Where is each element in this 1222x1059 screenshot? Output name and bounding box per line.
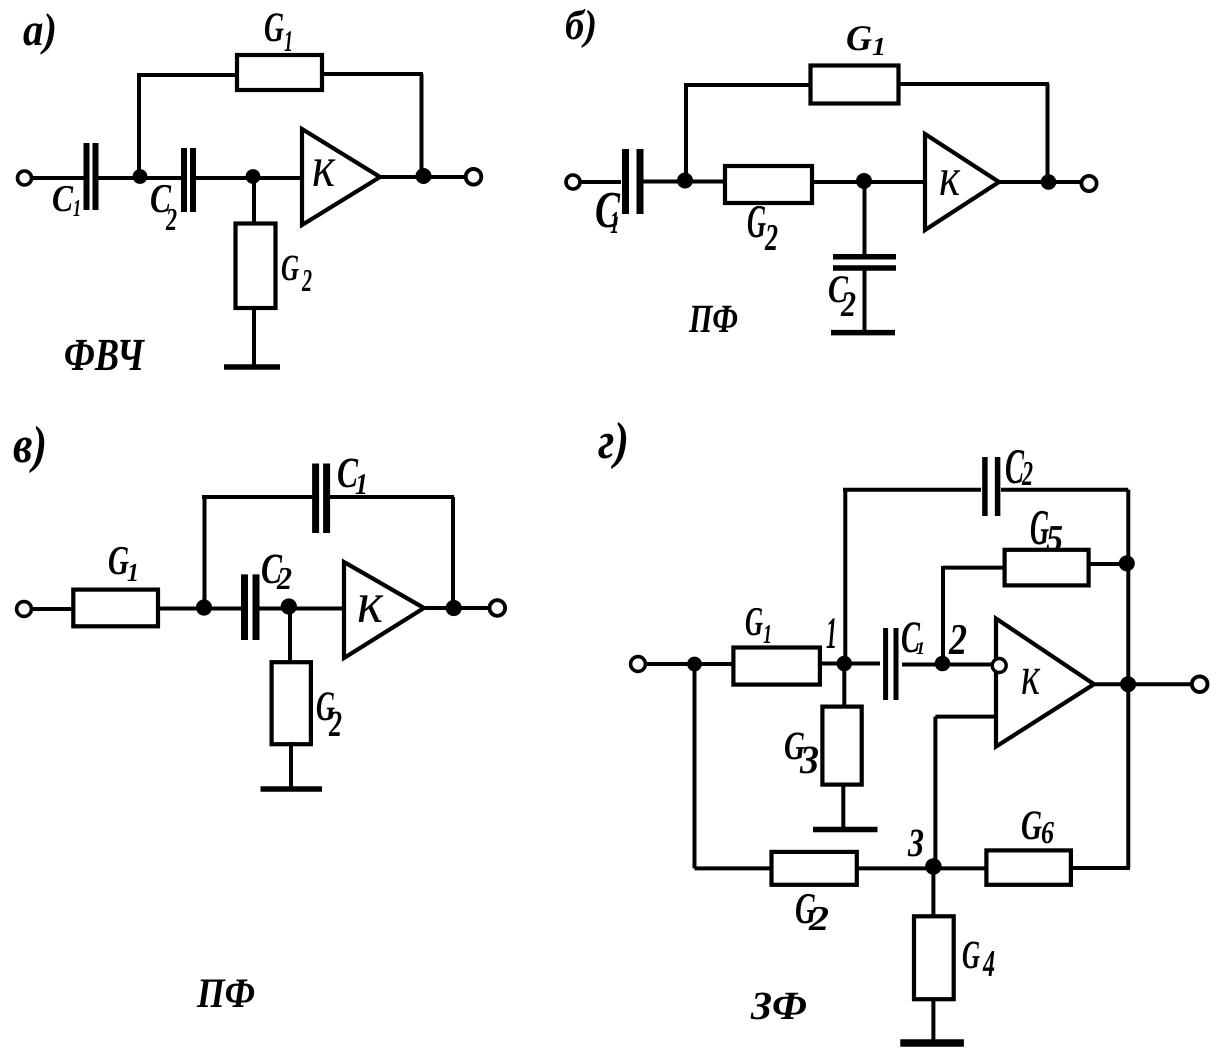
output terminal v: [490, 600, 506, 616]
node g-out junction: [1120, 676, 1136, 692]
svg-text:г): г): [598, 413, 629, 470]
wire C2 top right (g): [1001, 488, 1128, 492]
wire C1 to C2 (a): [98, 176, 181, 180]
resistor G5 (g): [1005, 550, 1089, 586]
capacitor C2 (b): [833, 254, 896, 260]
svg-text:G: G: [962, 932, 980, 977]
svg-text:2: 2: [764, 217, 778, 259]
capacitor C1 (b): [622, 149, 629, 214]
node v1 junction: [196, 599, 212, 615]
capacitor C1 (v): [312, 464, 319, 534]
node 1 junction (g): [837, 656, 853, 672]
node a1 junction: [133, 169, 148, 184]
resistor G1 (b): [811, 66, 899, 104]
svg-text:ФВЧ: ФВЧ: [64, 329, 145, 380]
wire top left (b): [684, 83, 810, 87]
svg-text:в): в): [13, 417, 47, 474]
node b1 junction: [677, 173, 693, 189]
ground b: [831, 330, 895, 336]
ground a: [224, 364, 280, 370]
node v3 output junction: [446, 600, 462, 616]
svg-text:2: 2: [301, 262, 312, 298]
wire lower input horizontal (g): [935, 715, 996, 719]
node a2 junction: [246, 169, 261, 184]
resistor G2 (a): [236, 224, 276, 309]
node G5-output junction (g): [1119, 555, 1135, 571]
svg-text:2: 2: [1021, 454, 1033, 493]
input terminal g: [631, 657, 646, 672]
wire G2 to amp (b): [812, 180, 925, 184]
wire top right (b): [898, 82, 1049, 86]
wire C2 to amp (v): [259, 607, 344, 611]
wire input v: [31, 607, 74, 611]
wire down to output node (a): [420, 74, 424, 177]
svg-text:к: к: [357, 570, 384, 635]
svg-text:2: 2: [840, 284, 856, 324]
capacitor C2 (g): [982, 457, 988, 516]
wire node2 to amp (g): [902, 663, 991, 667]
output terminal a: [466, 169, 482, 185]
ground v: [261, 786, 323, 792]
wire G1 to C2 (v): [158, 607, 241, 611]
wire node v2 down (v): [288, 609, 292, 665]
svg-text:б): б): [565, 3, 597, 49]
svg-text:G: G: [264, 5, 284, 51]
wire lower input vertical from node 3 (g): [933, 717, 937, 868]
wire down to output node (b): [1046, 84, 1050, 182]
node 3 junction (g): [925, 858, 942, 875]
wire to G2 (g): [695, 866, 775, 870]
wire node2 up to G5 (g): [941, 566, 945, 662]
wire G2 to node3 (g): [857, 866, 987, 870]
svg-text:к: к: [312, 134, 336, 199]
capacitor C1 (a): [84, 143, 90, 210]
wire node b2 down (b): [863, 182, 867, 255]
wire top left (v): [202, 495, 314, 499]
wire amp output (b): [999, 180, 1083, 184]
svg-text:1: 1: [73, 196, 81, 222]
svg-text:1: 1: [872, 32, 886, 61]
node v2 junction: [281, 598, 297, 614]
wire top right (v): [330, 495, 454, 499]
op-amp K (a): [302, 129, 380, 225]
ground g3: [813, 827, 878, 833]
svg-text:1: 1: [916, 638, 925, 658]
resistor G2 (b): [725, 166, 812, 203]
resistor G1 (a): [237, 55, 322, 90]
node a3 output junction: [416, 168, 432, 184]
svg-text:2: 2: [808, 899, 829, 938]
wire node b1 up: [684, 85, 688, 182]
capacitor C2 (v): [241, 574, 248, 640]
svg-text:6: 6: [1041, 814, 1054, 850]
wire amp output (v): [424, 606, 491, 610]
wire G4 to ground (g): [931, 999, 935, 1042]
wire node1 down to G3 (g): [842, 663, 846, 709]
wire top left (a): [137, 73, 237, 77]
wire G5 right (g): [1089, 562, 1127, 566]
resistor G1 (g): [733, 648, 820, 685]
svg-text:1: 1: [284, 25, 293, 58]
node 2 junction (g): [935, 656, 951, 672]
resistor G1 (v): [73, 590, 158, 627]
svg-text:1: 1: [763, 619, 772, 649]
wire C2 to amp (a): [196, 176, 302, 180]
svg-text:ПФ: ПФ: [688, 296, 738, 341]
svg-text:2: 2: [165, 201, 177, 237]
svg-text:2: 2: [276, 560, 292, 596]
wire C2 top left (g): [843, 488, 981, 492]
svg-text:ЗФ: ЗФ: [750, 983, 807, 1028]
resistor G4 (g): [914, 916, 954, 999]
svg-text:5: 5: [1046, 518, 1063, 560]
output terminal b: [1081, 176, 1096, 191]
svg-text:3: 3: [799, 737, 819, 782]
op-amp K (b): [925, 134, 999, 230]
node b3 output junction: [1041, 174, 1057, 190]
svg-text:4: 4: [982, 943, 995, 985]
input terminal v: [17, 602, 32, 617]
output terminal g: [1192, 676, 1208, 692]
svg-text:3: 3: [907, 820, 924, 865]
resistor G2 (v): [272, 662, 311, 744]
svg-text:2: 2: [948, 615, 967, 664]
wire feedback vertical right (g): [1126, 490, 1130, 868]
wire input g: [645, 662, 734, 666]
svg-text:G: G: [281, 248, 299, 289]
svg-text:к: к: [1021, 645, 1041, 706]
resistor G2 (g): [772, 852, 857, 885]
input terminal b: [566, 175, 580, 189]
wire input a: [31, 176, 84, 180]
capacitor C1 (g): [883, 628, 888, 700]
svg-text:C: C: [52, 178, 74, 220]
svg-text:ПФ: ПФ: [196, 971, 255, 1017]
svg-text:2: 2: [328, 704, 342, 745]
resistor G6 (g): [986, 850, 1071, 884]
wire C1 to node b1: [642, 180, 726, 184]
wire down to output node (v): [451, 497, 455, 608]
wire top right (a): [324, 72, 423, 76]
node g-in junction: [687, 657, 702, 672]
wire input b: [580, 180, 621, 184]
wire node1 up to C2 (g): [843, 490, 847, 663]
wire G6 to feedback vertical (g): [1071, 866, 1130, 870]
svg-text:G: G: [747, 196, 766, 248]
svg-text:G: G: [1021, 803, 1042, 849]
resistor G3 (g): [822, 707, 861, 785]
ground g4: [900, 1039, 964, 1047]
wire left vertical input to G2 (g): [693, 664, 697, 868]
capacitor C2 (a): [181, 148, 187, 212]
op-amp K (v): [344, 562, 424, 658]
svg-text:G: G: [846, 18, 872, 58]
op-amp inverting input circle (g): [992, 659, 1006, 673]
wire node1 to C1 (g): [820, 662, 880, 666]
op-amp K (g): [996, 619, 1094, 747]
wire amp output (g): [1094, 682, 1192, 686]
svg-text:к: к: [939, 147, 961, 207]
node b2 junction: [856, 173, 872, 189]
wire G2 to ground (v): [289, 742, 293, 789]
wire amp output (a): [380, 175, 467, 179]
svg-text:1: 1: [826, 608, 837, 658]
wire node a1 up: [137, 75, 141, 178]
wire C2 to ground (b): [863, 270, 867, 332]
svg-text:1: 1: [610, 204, 619, 240]
wire G3 to ground (g): [841, 783, 845, 830]
wire G5 left (g): [943, 566, 1005, 570]
svg-text:G: G: [745, 598, 763, 644]
svg-text:1: 1: [127, 558, 139, 587]
wire G2 to ground (a): [252, 308, 256, 367]
wire node v1 up: [203, 497, 207, 608]
svg-text:а): а): [23, 4, 57, 55]
wire node a2 down (a): [252, 178, 256, 225]
wire node3 down to G4 (g): [931, 868, 935, 919]
input terminal a: [18, 171, 32, 185]
